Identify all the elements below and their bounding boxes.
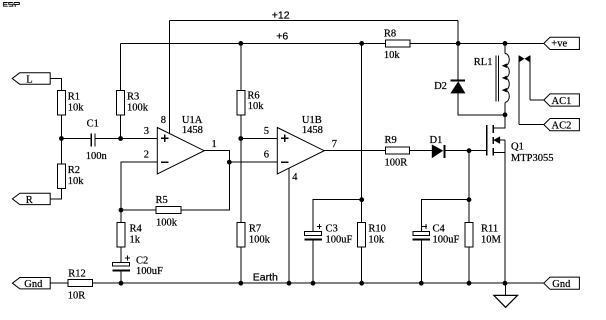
relay RL1: [474, 53, 510, 102]
svg-text:R2: R2: [68, 165, 80, 176]
wire +12 drop to +ve node: [457, 21, 459, 44]
port Gnd left: [12, 278, 50, 291]
svg-text:2: 2: [144, 150, 149, 161]
svg-text:AC2: AC2: [552, 121, 572, 132]
svg-text:R9: R9: [385, 135, 397, 146]
resistor R10: [358, 222, 386, 247]
wire +12 drop to U1A pin 8: [168, 21, 170, 134]
port Gnd right: [544, 277, 580, 290]
svg-text:1: 1: [212, 139, 217, 150]
node inverting junction: [119, 208, 124, 213]
wire +ve run right of R8: [410, 42, 544, 44]
resistor R11: [465, 222, 502, 247]
resistor R7: [237, 222, 271, 247]
node earth junction source: [503, 281, 508, 286]
svg-text:5: 5: [264, 126, 269, 137]
node earth junction C3: [311, 281, 316, 286]
wire +ve to coil: [504, 43, 506, 53]
wire C4 to earth: [420, 239, 422, 283]
svg-text:+12: +12: [272, 10, 290, 22]
wire feedback down: [181, 162, 230, 210]
resistor R5: [156, 195, 181, 228]
svg-text:Q1: Q1: [511, 142, 524, 153]
node C4 link junction: [467, 197, 472, 202]
resistor R9: [385, 135, 410, 168]
node earth junction C4: [419, 281, 424, 286]
svg-text:Earth: Earth: [253, 272, 278, 284]
wire +6 drop to R3: [120, 43, 122, 90]
svg-text:R8: R8: [384, 28, 396, 39]
wire C3 to earth: [312, 239, 314, 283]
capacitor C4: [413, 224, 460, 246]
wire U1A output: [204, 151, 229, 163]
svg-text:+6: +6: [276, 30, 288, 42]
node earth junction R11: [467, 281, 472, 286]
wire C1 to pin3 node: [95, 138, 120, 140]
wire pin 6: [229, 161, 277, 163]
svg-text:10k: 10k: [248, 101, 265, 112]
wire contact to AC2: [519, 124, 544, 126]
op-amp U1A: [157, 115, 204, 174]
transistor Q1: [487, 115, 554, 164]
svg-text:100k: 100k: [249, 234, 271, 245]
svg-text:1458: 1458: [182, 125, 203, 136]
resistor R6: [237, 91, 264, 116]
svg-text:R12: R12: [68, 268, 86, 279]
svg-text:100uF: 100uF: [136, 266, 163, 277]
diode D2: [434, 81, 465, 93]
node pin5 junction: [238, 136, 243, 141]
capacitor C1: [86, 118, 108, 162]
svg-text:Gnd: Gnd: [24, 279, 43, 290]
wire C3 link: [313, 200, 362, 232]
node R6 top junction: [238, 41, 243, 46]
wire Gnd to R12: [50, 282, 68, 284]
esp logo: [4, 3, 20, 8]
wire +6 divider column: [361, 43, 363, 222]
node earth junction R10: [359, 281, 364, 286]
resistor R2: [57, 164, 84, 189]
wire R11 to earth: [468, 247, 470, 283]
svg-text:C2: C2: [136, 255, 148, 266]
wire C2 to earth: [120, 271, 122, 284]
wire earth rail: [92, 282, 543, 284]
node earth junction C2: [119, 281, 124, 286]
svg-text:7: 7: [332, 139, 337, 150]
svg-text:10k: 10k: [68, 102, 85, 113]
svg-text:10M: 10M: [481, 234, 502, 245]
resistor R3: [117, 91, 149, 116]
svg-text:100n: 100n: [86, 151, 108, 162]
node C3 link junction: [359, 197, 364, 202]
svg-text:C1: C1: [87, 118, 99, 129]
wire +12 to D2: [457, 43, 459, 80]
wire +12 rail: [169, 20, 458, 22]
wire L to R1: [50, 79, 61, 91]
svg-text:100uF: 100uF: [326, 234, 353, 245]
node junction L-mix: [59, 136, 64, 141]
relay contact left: [519, 56, 523, 125]
svg-text:6: 6: [264, 150, 269, 161]
wire pin 3: [121, 138, 158, 140]
wire pin 2: [121, 162, 157, 210]
svg-text:RL1: RL1: [474, 57, 493, 68]
svg-text:C3: C3: [326, 224, 338, 235]
wire R5 to inverting node: [121, 209, 156, 211]
wire D1 to gate: [444, 150, 486, 152]
wire R9 to D1: [409, 150, 432, 152]
node D2 top junction: [456, 41, 461, 46]
node drain junction: [503, 112, 508, 117]
resistor R1: [57, 91, 84, 116]
wire R2 to port R: [50, 189, 62, 199]
svg-text:AC1: AC1: [552, 96, 572, 107]
port R: [12, 193, 50, 206]
svg-text:1k: 1k: [130, 234, 141, 245]
svg-text:1458: 1458: [302, 125, 323, 136]
diode D1: [430, 135, 445, 158]
svg-text:100k: 100k: [127, 102, 149, 113]
svg-text:D1: D1: [430, 135, 443, 146]
svg-text:D2: D2: [434, 81, 447, 92]
svg-text:10R: 10R: [68, 290, 86, 301]
svg-text:R6: R6: [247, 91, 259, 102]
svg-text:+ve: +ve: [551, 38, 567, 49]
resistor R4: [117, 222, 143, 247]
wire divider to R7: [240, 139, 242, 223]
wire source to earth: [504, 152, 506, 283]
relay contact right: [525, 56, 529, 100]
wire node to R4: [120, 210, 122, 222]
wire R3 to pin3 node: [120, 115, 122, 138]
wire U1B output: [324, 150, 385, 152]
svg-text:R7: R7: [249, 224, 261, 235]
svg-text:R1: R1: [68, 92, 80, 103]
wire coil to drain node: [504, 102, 506, 115]
svg-text:R11: R11: [481, 224, 498, 235]
wire node to C1: [61, 138, 90, 140]
node gate junction: [467, 148, 472, 153]
wire D2 to drain node: [458, 93, 505, 115]
node +6 divider top: [359, 41, 364, 46]
node pin3 junction: [118, 136, 123, 141]
port L: [12, 73, 50, 86]
svg-text:R3: R3: [127, 92, 139, 103]
svg-text:C4: C4: [433, 224, 446, 235]
wire +6 rail left of R8: [121, 42, 386, 44]
wire C4 link: [421, 200, 469, 232]
svg-text:R10: R10: [368, 224, 386, 235]
resistor R8: [384, 28, 410, 61]
svg-text:R5: R5: [156, 195, 168, 206]
svg-text:8: 8: [161, 115, 166, 126]
svg-text:R4: R4: [130, 224, 143, 235]
port +ve: [544, 37, 580, 49]
wire pin 5: [241, 138, 277, 140]
capacitor C2: [112, 255, 163, 277]
wire R7 to earth: [240, 247, 242, 283]
ground: [494, 283, 518, 307]
svg-text:100k: 100k: [156, 217, 178, 228]
svg-text:10k: 10k: [384, 50, 401, 61]
node earth junction R7: [238, 281, 243, 286]
svg-text:3: 3: [144, 126, 149, 137]
node U1A out junction: [227, 160, 232, 165]
wire pin 4 to earth: [288, 168, 290, 283]
wire R1 to C1 node: [60, 115, 62, 138]
svg-text:L: L: [26, 74, 32, 85]
svg-text:R: R: [26, 195, 33, 206]
svg-text:4: 4: [292, 172, 298, 183]
wire gate node down: [468, 151, 470, 223]
wire R4 to C2: [120, 247, 122, 263]
node coil top junction: [503, 41, 508, 46]
svg-text:100R: 100R: [385, 157, 408, 168]
svg-text:100uF: 100uF: [433, 234, 460, 245]
capacitor C3: [304, 224, 352, 246]
resistor R12: [68, 268, 93, 301]
node earth junction pin4: [287, 281, 292, 286]
svg-text:Gnd: Gnd: [552, 279, 571, 290]
wire R10 to earth: [361, 247, 363, 283]
port AC1: [544, 94, 580, 107]
wire R2 top: [60, 139, 62, 165]
port AC2: [544, 119, 580, 132]
svg-text:MTP3055: MTP3055: [511, 153, 554, 164]
svg-text:10k: 10k: [68, 176, 85, 187]
svg-text:10k: 10k: [368, 234, 385, 245]
wire +6 to R6: [240, 43, 242, 90]
op-amp U1B: [277, 115, 324, 174]
wire contact to AC1: [530, 99, 544, 101]
wire R6 to pin5 node: [240, 115, 242, 138]
